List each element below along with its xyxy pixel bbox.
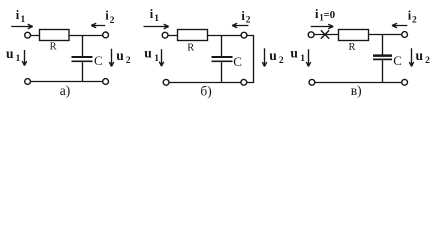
svg-text:2: 2 — [412, 16, 417, 26]
svg-text:u: u — [6, 46, 14, 61]
svg-text:C: C — [94, 53, 103, 68]
svg-text:R: R — [349, 42, 356, 53]
svg-text:1: 1 — [154, 54, 159, 64]
svg-text:u: u — [144, 46, 152, 61]
svg-text:u: u — [269, 48, 277, 63]
svg-text:C: C — [393, 53, 402, 68]
svg-text:2: 2 — [246, 16, 251, 26]
svg-text:=0: =0 — [323, 9, 335, 21]
svg-text:1: 1 — [154, 14, 159, 24]
svg-text:2: 2 — [126, 56, 131, 66]
svg-text:R: R — [187, 43, 194, 54]
svg-text:1: 1 — [16, 54, 21, 64]
svg-text:u: u — [416, 48, 424, 63]
svg-text:1: 1 — [21, 15, 26, 25]
svg-text:C: C — [233, 54, 242, 69]
svg-text:i: i — [150, 7, 154, 21]
svg-text:1: 1 — [300, 54, 305, 64]
svg-text:u: u — [116, 48, 124, 63]
svg-text:i: i — [16, 8, 20, 22]
svg-text:в): в) — [351, 83, 362, 98]
svg-text:б): б) — [200, 83, 211, 98]
svg-text:R: R — [50, 42, 57, 53]
svg-text:u: u — [290, 46, 298, 61]
svg-text:2: 2 — [279, 56, 284, 66]
svg-text:2: 2 — [110, 16, 115, 26]
svg-text:а): а) — [60, 83, 71, 98]
svg-text:2: 2 — [425, 56, 430, 66]
